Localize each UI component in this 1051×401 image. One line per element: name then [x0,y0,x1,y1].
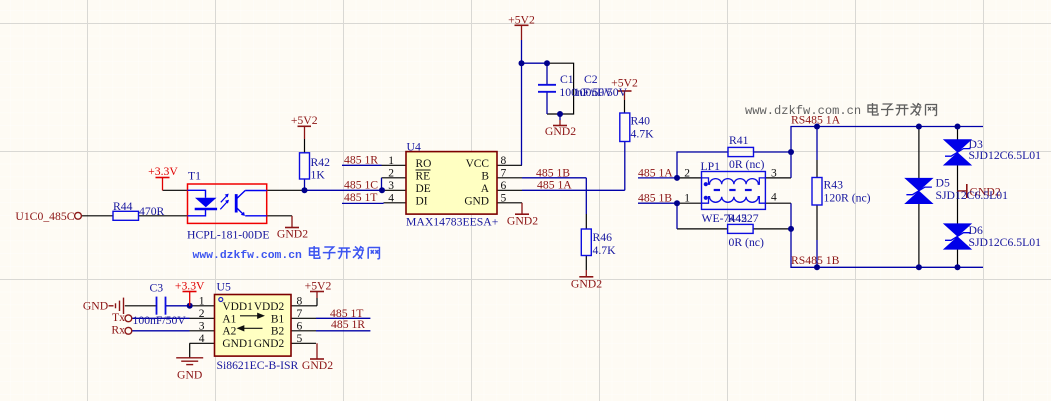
svg-text:485 1T: 485 1T [344,191,377,204]
svg-text:SJD12C6.5L01: SJD12C6.5L01 [936,189,1009,202]
svg-text:R41: R41 [729,134,749,147]
svg-text:GND2: GND2 [254,338,285,350]
svg-text:5: 5 [501,192,507,204]
svg-text:3: 3 [388,180,394,192]
svg-text:www.dzkfw.com.cn: www.dzkfw.com.cn [745,104,861,118]
svg-text:1: 1 [199,295,205,307]
svg-text:2: 2 [684,167,690,179]
svg-text:2: 2 [199,308,205,320]
svg-text:GND2: GND2 [277,228,308,241]
svg-text:R44: R44 [113,200,133,213]
svg-text:GND1: GND1 [222,338,253,350]
svg-text:+5V2: +5V2 [508,14,535,27]
svg-text:R46: R46 [593,231,613,244]
svg-text:GND2: GND2 [507,215,538,228]
svg-text:C1: C1 [560,73,574,86]
svg-text:1: 1 [684,193,690,205]
svg-text:+3.3V: +3.3V [175,279,205,292]
svg-text:Rx: Rx [111,324,125,337]
svg-text:www.dzkfw.com.cn: www.dzkfw.com.cn [193,250,303,262]
svg-text:0R (nc): 0R (nc) [729,158,764,171]
svg-text:+3.3V: +3.3V [148,165,178,178]
svg-text:RO: RO [416,158,432,170]
svg-text:470R: 470R [139,205,165,218]
svg-text:GND: GND [177,369,202,382]
svg-text:A1: A1 [222,313,236,325]
svg-text:4: 4 [199,333,205,345]
svg-text:4.7K: 4.7K [593,244,617,257]
svg-text:4: 4 [388,192,394,204]
svg-text:3: 3 [199,320,205,332]
svg-text:120R (nc): 120R (nc) [824,191,871,204]
svg-text:100nF/50V: 100nF/50V [574,86,628,99]
svg-text:Tx: Tx [112,311,125,324]
svg-text:T1: T1 [188,170,201,183]
svg-text:GND: GND [464,196,489,208]
svg-text:485 1A: 485 1A [638,167,673,180]
svg-text:U5: U5 [217,280,231,293]
svg-text:485 1C: 485 1C [344,179,378,192]
svg-text:D5: D5 [936,176,950,189]
svg-text:100nF/50V: 100nF/50V [133,314,187,327]
svg-text:R40: R40 [631,114,651,127]
svg-text:485 1R: 485 1R [344,154,378,167]
svg-text:8: 8 [297,295,303,307]
svg-text:GND2: GND2 [302,359,333,372]
svg-text:4: 4 [771,192,777,204]
svg-text:SJD12C6.5L01: SJD12C6.5L01 [969,236,1042,249]
svg-text:1K: 1K [311,169,326,182]
svg-text:8: 8 [501,155,507,167]
svg-text:1: 1 [388,155,394,167]
svg-text:+5V2: +5V2 [291,114,318,127]
svg-text:U1C0_485C: U1C0_485C [15,210,74,223]
svg-text:485 1A: 485 1A [537,178,572,191]
svg-text:R42: R42 [311,156,331,169]
svg-text:7: 7 [501,167,507,179]
svg-text:HCPL-181-00DE: HCPL-181-00DE [187,229,269,242]
svg-text:B: B [481,171,489,183]
svg-text:GND2: GND2 [571,278,602,291]
svg-text:6: 6 [501,180,507,192]
svg-text:0R (nc): 0R (nc) [729,236,764,249]
svg-text:MAX14783EESA+: MAX14783EESA+ [406,216,499,229]
svg-text:3: 3 [771,167,777,179]
svg-text:R43: R43 [824,178,844,191]
svg-text:GND: GND [83,300,108,313]
svg-text:GND2: GND2 [545,125,576,138]
svg-text:485 1R: 485 1R [331,318,365,331]
svg-text:U4: U4 [407,140,421,153]
svg-text:4.7K: 4.7K [631,127,655,140]
svg-text:RS485 1B: RS485 1B [791,254,840,267]
svg-text:VCC: VCC [466,158,489,170]
svg-text:+5V2: +5V2 [305,279,332,292]
svg-text:DI: DI [416,196,428,208]
svg-text:Si8621EC-B-ISR: Si8621EC-B-ISR [217,359,299,372]
svg-text:2: 2 [388,167,394,179]
svg-text:B1: B1 [271,313,285,325]
svg-text:C3: C3 [150,281,164,294]
svg-text:A2: A2 [222,326,236,338]
svg-text:B2: B2 [271,326,285,338]
svg-text:C2: C2 [584,73,598,86]
svg-text:485 1B: 485 1B [638,191,672,204]
svg-text:R45: R45 [728,212,748,225]
svg-text:VDD1: VDD1 [222,301,253,313]
svg-text:LP1: LP1 [701,160,721,173]
svg-text:SJD12C6.5L01: SJD12C6.5L01 [969,149,1042,162]
svg-text:6: 6 [297,320,303,332]
svg-text:VDD2: VDD2 [254,301,285,313]
svg-text:A: A [481,183,490,195]
svg-text:5: 5 [297,333,303,345]
svg-text:7: 7 [297,308,303,320]
svg-text:DE: DE [416,183,431,195]
svg-text:RE: RE [416,171,431,183]
